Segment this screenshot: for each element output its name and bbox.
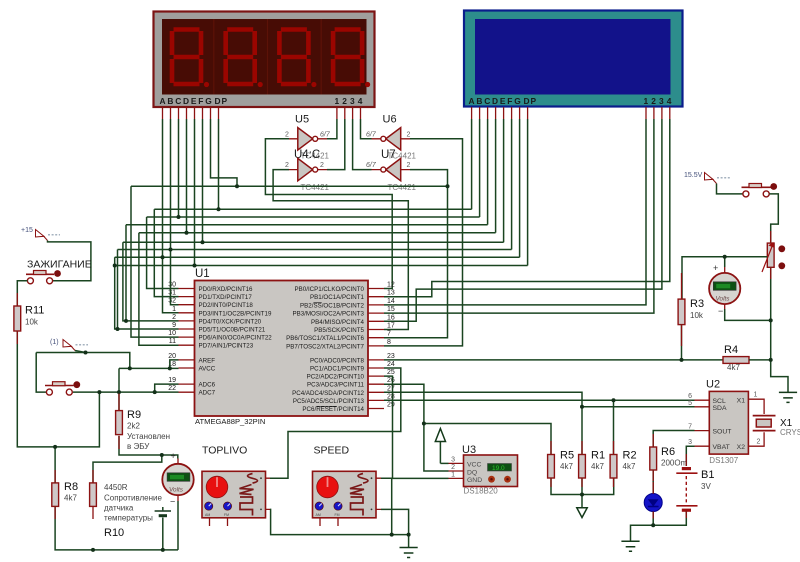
svg-text:Volts: Volts — [169, 487, 184, 494]
U1 left pin stubs — [179, 289, 195, 393]
svg-text:1234: 1234 — [644, 96, 675, 106]
digit cell separators — [214, 19, 321, 95]
wire 7seg DP — [218, 119, 220, 209]
generator +15 — [21, 227, 60, 241]
svg-text:4450R: 4450R — [104, 483, 128, 492]
driver U6 TC4421 (mirrored) — [366, 114, 411, 151]
svg-text:PB7/TOSC2/XTAL2/PCINT7: PB7/TOSC2/XTAL2/PCINT7 — [286, 343, 364, 350]
svg-text:CRYSTAL: CRYSTAL — [780, 428, 800, 437]
wire R11 down to bottom left rail — [17, 331, 99, 447]
ground arrow down — [577, 495, 587, 518]
generator 15.5V — [684, 172, 730, 184]
svg-text:2: 2 — [285, 131, 289, 138]
wire pin14 east to LCD digit1 — [384, 119, 646, 305]
svg-text:+: + — [713, 263, 718, 273]
wire (1) node — [75, 351, 86, 353]
wire R4 east to ground — [749, 360, 788, 393]
wire ADC6 jog — [155, 384, 179, 392]
generator SPEED — [313, 445, 382, 527]
bus H3 — [147, 216, 480, 218]
svg-text:2: 2 — [285, 162, 289, 169]
wire pin16 jog east to LCD digit3 — [384, 119, 662, 321]
wire 7seg C — [178, 119, 180, 217]
ground sym2 — [621, 541, 639, 551]
staircase H8 to row9 — [115, 257, 179, 329]
power arrow U3 vcc — [435, 429, 445, 464]
battery B1 — [676, 469, 714, 511]
wire 7seg F — [202, 119, 204, 242]
svg-text:(1): (1) — [50, 339, 59, 346]
wire 7seg G jog — [211, 119, 238, 186]
display pins DISP2 segment A-G DP — [472, 107, 528, 119]
svg-text:VCC: VCC — [467, 462, 481, 469]
svg-text:16: 16 — [387, 314, 395, 321]
svg-text:27: 27 — [387, 385, 395, 392]
svg-text:+15: +15 — [21, 227, 33, 234]
ignition button SW1 — [26, 259, 92, 284]
svg-text:20: 20 — [168, 353, 176, 360]
svg-text:13: 13 — [387, 290, 395, 297]
resistor R4 horizontal — [723, 344, 749, 372]
svg-text:PB2/SS/OC1B/PCINT2: PB2/SS/OC1B/PCINT2 — [300, 302, 365, 309]
wire ignition to R11 — [17, 281, 27, 306]
wire +15 to ignition button — [48, 241, 91, 281]
wire U3 VCC — [440, 462, 448, 464]
svg-text:2: 2 — [172, 314, 176, 321]
voltmeter VM1 — [162, 451, 193, 507]
svg-text:23: 23 — [387, 353, 395, 360]
IC U1 ATMEGA88P — [195, 268, 369, 426]
svg-text:17: 17 — [387, 323, 395, 330]
svg-text:−: − — [170, 497, 175, 507]
svg-text:X2: X2 — [737, 444, 746, 451]
junction dots right — [580, 255, 773, 528]
svg-text:4k7: 4k7 — [591, 462, 604, 471]
svg-text:PD6/AIN0/OC0A/PCINT22: PD6/AIN0/OC0A/PCINT22 — [199, 335, 273, 342]
svg-text:1: 1 — [172, 306, 176, 313]
wire pullup bottom rail — [551, 478, 614, 495]
resistor R9 — [116, 409, 170, 451]
wire digit3 to U7 out — [353, 119, 372, 170]
svg-text:U6: U6 — [383, 114, 397, 126]
svg-text:Установлен: Установлен — [127, 432, 170, 441]
wire TOPLIVO out to PC1 — [270, 368, 401, 478]
wire VM1 minus down — [177, 501, 179, 550]
staircase H7 drop — [117, 250, 119, 330]
svg-text:ADC7: ADC7 — [199, 390, 216, 397]
svg-text:32: 32 — [168, 298, 176, 305]
svg-text:R3: R3 — [690, 298, 704, 310]
wire node to R10 top — [93, 455, 162, 483]
svg-text:R2: R2 — [623, 450, 637, 462]
wire digit2 to U4:C out — [327, 119, 345, 170]
svg-text:PB6/TOSC1/XTAL1/PCINT6: PB6/TOSC1/XTAL1/PCINT6 — [286, 335, 364, 342]
svg-text:в ЭБУ: в ЭБУ — [127, 442, 150, 451]
svg-text:2k2: 2k2 — [127, 422, 140, 431]
svg-text:4k7: 4k7 — [64, 494, 77, 503]
wire v119 to R9 — [118, 368, 120, 410]
resistor R6 — [650, 446, 688, 470]
svg-text:GND: GND — [467, 477, 482, 484]
bottom left rail — [55, 506, 178, 550]
svg-text:температуры: температуры — [104, 514, 153, 523]
svg-text:AM: AM — [205, 513, 210, 517]
wire pot wiper west — [682, 257, 767, 299]
svg-text:22: 22 — [168, 385, 176, 392]
svg-text:AREF: AREF — [199, 357, 216, 364]
potentiometer RV1 — [762, 242, 785, 272]
svg-text:9: 9 — [172, 322, 176, 329]
driver U5 TC4421 — [285, 114, 331, 151]
wire LCD G riser — [519, 119, 521, 257]
wire LCD C riser — [487, 119, 489, 225]
wire SOUT to R6 — [653, 431, 694, 448]
bus H4 — [126, 224, 488, 226]
svg-text:2: 2 — [407, 162, 411, 169]
svg-text:B1: B1 — [701, 469, 714, 481]
wire button3 to pot top — [769, 194, 778, 243]
svg-text:30: 30 — [168, 282, 176, 289]
svg-text:PB4/MISO/PCINT4: PB4/MISO/PCINT4 — [311, 319, 365, 326]
wire VM2 minus — [725, 309, 771, 320]
generator (1) — [50, 339, 88, 351]
battery cell — [155, 507, 171, 550]
bus H9 — [115, 265, 528, 267]
wire digit1 to U5 out — [327, 119, 337, 139]
wire TOPLIVO lower out — [270, 509, 409, 534]
svg-text:2: 2 — [757, 439, 761, 446]
wire SDA line PC4 to U2 — [384, 392, 695, 407]
svg-text:VBAT: VBAT — [713, 444, 730, 451]
display pins DISP1 segment A-G DP — [163, 107, 219, 119]
svg-text:U7: U7 — [381, 149, 396, 161]
svg-text:U5: U5 — [295, 114, 309, 126]
IC U2 DS1307 — [688, 379, 760, 466]
svg-text:PD7/AIN1/PCINT23: PD7/AIN1/PCINT23 — [199, 343, 254, 350]
svg-text:11: 11 — [169, 338, 176, 345]
svg-text:6/7: 6/7 — [366, 131, 377, 138]
U1 left pin labels — [199, 286, 273, 397]
wire LED bottom to ground2 — [631, 512, 654, 542]
svg-text:4k7: 4k7 — [560, 462, 573, 471]
svg-text:DS18B20: DS18B20 — [464, 487, 499, 496]
wire R2 top riser — [613, 400, 615, 454]
svg-text:PD3/INT1/OC2B/PCINT19: PD3/INT1/OC2B/PCINT19 — [199, 310, 272, 317]
wire VM2 plus riser — [724, 257, 726, 267]
svg-text:PD1/TXD/PCINT17: PD1/TXD/PCINT17 — [199, 294, 253, 301]
generator TOPLIVO — [202, 445, 270, 527]
svg-text:SCL: SCL — [713, 398, 726, 405]
svg-text:2: 2 — [320, 162, 324, 169]
svg-text:2: 2 — [451, 464, 455, 471]
junction dots left — [53, 351, 172, 552]
svg-text:ADC6: ADC6 — [199, 382, 216, 389]
wire VBAT to battery B1 — [686, 446, 694, 466]
svg-text:ЗАЖИГАНИЕ: ЗАЖИГАНИЕ — [27, 259, 92, 271]
button SW3 — [742, 183, 778, 197]
wire LCD F riser — [511, 119, 513, 250]
svg-text:DQ: DQ — [467, 469, 477, 476]
wire U4:C in from PB5 — [273, 170, 408, 330]
svg-text:R6: R6 — [661, 446, 675, 458]
driver U4:C — [285, 149, 330, 192]
svg-text:DP: DP — [524, 96, 538, 106]
svg-text:ABCDEFG: ABCDEFG — [160, 96, 214, 106]
svg-text:6/7: 6/7 — [320, 131, 331, 138]
svg-text:24: 24 — [387, 361, 395, 368]
wire R8 top — [54, 447, 56, 483]
svg-text:6/7: 6/7 — [366, 162, 377, 169]
wire digit4 to U6 out — [361, 119, 372, 139]
svg-text:PC2/ADC2/PCINT10: PC2/ADC2/PCINT10 — [307, 374, 365, 381]
svg-text:FM: FM — [224, 513, 229, 517]
svg-text:−: − — [718, 306, 723, 316]
svg-text:R11: R11 — [25, 305, 44, 317]
svg-text:+: + — [171, 451, 176, 461]
svg-text:15: 15 — [387, 306, 395, 313]
staircase H5 to row11 — [139, 233, 179, 346]
svg-text:X1: X1 — [737, 397, 746, 404]
staircase H1 to row10 — [131, 186, 179, 337]
wire U6 in to PB7 — [384, 139, 463, 346]
svg-text:ABCDEFG: ABCDEFG — [469, 96, 523, 106]
wire ADC7 line / button2 row — [73, 391, 179, 393]
svg-text:3V: 3V — [701, 482, 711, 491]
digit cells — [172, 30, 362, 85]
svg-text:200Om: 200Om — [661, 459, 688, 468]
svg-text:8: 8 — [387, 339, 391, 346]
svg-text:29: 29 — [387, 402, 395, 409]
svg-text:PC0/ADC0/PCINT8: PC0/ADC0/PCINT8 — [310, 357, 365, 364]
svg-text:R8: R8 — [64, 481, 78, 493]
staircase H6 to row2 — [123, 242, 179, 321]
svg-text:5: 5 — [688, 400, 692, 407]
svg-text:19: 19 — [168, 377, 176, 384]
svg-text:PD4/T0/XCK/PCINT20: PD4/T0/XCK/PCINT20 — [199, 318, 262, 325]
wire LCD B riser — [479, 119, 481, 217]
svg-text:AVCC: AVCC — [199, 366, 216, 373]
bus H1 net G — [131, 185, 448, 187]
resistor R1 — [579, 450, 605, 479]
svg-text:R9: R9 — [127, 409, 141, 421]
svg-text:ATMEGA88P_32PIN: ATMEGA88P_32PIN — [195, 417, 265, 426]
svg-text:10k: 10k — [690, 311, 704, 320]
resistor R11 — [14, 305, 44, 332]
wire SCL line PC5 to U2 — [384, 399, 695, 401]
U1 right pin labels — [286, 286, 364, 413]
wire pot bottom down — [770, 267, 772, 360]
svg-text:10k: 10k — [25, 318, 39, 327]
wire LCD E riser — [503, 119, 505, 242]
staircase H4 drop — [125, 225, 127, 321]
wire U3 GND drop — [391, 478, 393, 534]
staircase H3 to row30 — [147, 217, 179, 289]
svg-text:DP: DP — [215, 96, 229, 106]
wire LCD A riser — [471, 119, 473, 209]
wire 7seg B down to row32 — [171, 119, 179, 305]
svg-text:PB0/ICP1/CLKO/PCINT0: PB0/ICP1/CLKO/PCINT0 — [295, 286, 365, 293]
resistor R3 — [678, 298, 704, 325]
svg-text:PD2/INT0/PCINT18: PD2/INT0/PCINT18 — [199, 302, 254, 309]
svg-text:PC3/ADC3/PCINT11: PC3/ADC3/PCINT11 — [307, 382, 365, 389]
display DISP1 7SEG-MPX4 red — [154, 12, 375, 108]
svg-text:7: 7 — [387, 331, 391, 338]
wire pin15 east to LCD digit2 — [384, 119, 654, 313]
wire SPEED lower out — [381, 509, 409, 534]
bus H6 — [123, 241, 504, 243]
resistor R10 — [90, 483, 163, 539]
bus H2 — [154, 208, 471, 210]
U1 right pin numbers — [387, 282, 395, 409]
svg-text:датчика: датчика — [104, 504, 134, 513]
svg-text:TC4421: TC4421 — [388, 183, 417, 192]
svg-text:PC4/ADC4/SDA/PCINT12: PC4/ADC4/SDA/PCINT12 — [292, 390, 364, 397]
wire 15.5V to button3 — [717, 184, 743, 194]
driver U7 — [366, 149, 417, 192]
wire DQ net from PC3 — [384, 384, 449, 471]
svg-text:R5: R5 — [560, 450, 574, 462]
svg-text:4k7: 4k7 — [623, 462, 636, 471]
wire U7 in to PB6 — [384, 170, 448, 338]
ground sym3 — [400, 535, 418, 558]
bus H7 — [118, 249, 512, 251]
wire DQ branch to R5 — [424, 424, 551, 455]
bus H8 — [115, 256, 520, 258]
wire LCD D riser — [495, 119, 497, 233]
svg-text:15.5V: 15.5V — [684, 172, 703, 179]
svg-text:U1: U1 — [195, 268, 210, 280]
voltmeter VM2 — [709, 263, 740, 316]
svg-text:3: 3 — [451, 456, 455, 463]
svg-text:PB5/SCK/PCINT5: PB5/SCK/PCINT5 — [314, 327, 364, 334]
svg-text:R1: R1 — [591, 450, 605, 462]
svg-text:DS1307: DS1307 — [709, 456, 738, 465]
resistor R8 — [52, 481, 78, 506]
wire PC0 line to R4 — [384, 359, 723, 361]
svg-text:SPEED: SPEED — [314, 445, 350, 457]
svg-text:7: 7 — [688, 424, 692, 431]
svg-text:1234: 1234 — [335, 96, 366, 106]
bus H5 — [139, 232, 496, 234]
svg-text:SOUT: SOUT — [713, 429, 732, 436]
svg-text:4k7: 4k7 — [727, 363, 740, 372]
junction dots mesh — [113, 184, 450, 331]
display pins DISP2 digits 1-4 — [646, 107, 670, 119]
resistor R2 — [610, 450, 636, 479]
svg-text:2: 2 — [407, 131, 411, 138]
staircase H2 to row31 — [154, 209, 178, 296]
ground sym1 right — [779, 392, 797, 402]
sensor U3 DS18B20 — [449, 444, 518, 496]
svg-text:3: 3 — [688, 439, 692, 446]
svg-text:R4: R4 — [724, 344, 738, 356]
wire pin13 jog east to LCD digit4 — [384, 119, 670, 297]
LED D1 — [644, 470, 662, 512]
wire 7seg A down to row1 — [163, 119, 179, 313]
svg-text:1: 1 — [451, 471, 455, 478]
display DISP2 7SEG-MPX4 blue — [464, 11, 683, 107]
wire U3 GND — [392, 477, 449, 479]
wire B1 bottom — [653, 511, 686, 525]
display pins DISP1 digits 1-4 — [337, 107, 361, 119]
wire AVCC line — [119, 367, 179, 369]
wire U5 in from PB0 — [265, 139, 392, 289]
svg-text:FM: FM — [335, 513, 340, 517]
svg-text:28: 28 — [387, 393, 395, 400]
svg-text:AM: AM — [316, 513, 321, 517]
svg-text:Сопротивление: Сопротивление — [104, 494, 162, 503]
svg-text:PC6/RESET/PCINT14: PC6/RESET/PCINT14 — [302, 406, 364, 413]
svg-text:19.0: 19.0 — [492, 465, 505, 472]
svg-text:R10: R10 — [104, 527, 124, 539]
svg-text:SDA: SDA — [713, 405, 727, 412]
wire R3 bottom — [681, 325, 683, 360]
svg-text:TC4421: TC4421 — [301, 183, 330, 192]
svg-text:PB1/OC1A/PCINT1: PB1/OC1A/PCINT1 — [310, 294, 365, 301]
svg-text:14: 14 — [387, 298, 395, 305]
svg-text:26: 26 — [387, 377, 395, 384]
svg-text:PB3/MOSI/OC2A/PCINT3: PB3/MOSI/OC2A/PCINT3 — [292, 311, 364, 318]
wire 7seg E — [194, 119, 196, 266]
svg-text:PD0/RXD/PCINT16: PD0/RXD/PCINT16 — [199, 286, 254, 293]
wire 7seg D — [186, 119, 188, 233]
dots bottom — [390, 533, 411, 537]
wire AREF jog — [170, 360, 179, 369]
red pin segments overlays — [16, 293, 18, 344]
svg-text:TOPLIVO: TOPLIVO — [202, 445, 247, 457]
U1 right pin stubs — [368, 289, 384, 409]
wire SPEED out to PC2 — [381, 376, 393, 478]
svg-text:12: 12 — [387, 282, 395, 289]
svg-text:PD5/T1/OC0B/PCINT21: PD5/T1/OC0B/PCINT21 — [199, 327, 266, 334]
crystal X1 — [753, 399, 800, 446]
svg-text:PC5/ADC5/SCL/PCINT13: PC5/ADC5/SCL/PCINT13 — [293, 398, 365, 405]
svg-text:PC1/ADC1/PCINT9: PC1/ADC1/PCINT9 — [310, 366, 365, 373]
svg-text:1: 1 — [754, 391, 758, 398]
wire LCD DP riser — [527, 119, 529, 266]
wire R9 bottom to node — [119, 436, 178, 459]
U1 left pin numbers — [168, 282, 176, 393]
resistor R5 — [548, 450, 574, 479]
button SW2 — [45, 381, 80, 395]
svg-text:U2: U2 — [706, 379, 720, 391]
svg-text:10: 10 — [168, 330, 176, 337]
svg-text:25: 25 — [387, 369, 395, 376]
wire R1 top riser — [581, 407, 583, 455]
svg-text:31: 31 — [168, 290, 176, 297]
svg-text:Volts: Volts — [716, 296, 731, 303]
